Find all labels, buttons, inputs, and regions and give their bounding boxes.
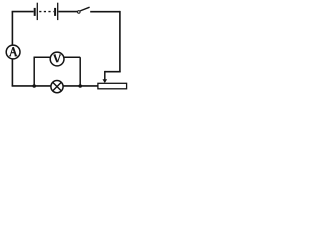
rheostat body xyxy=(98,83,127,89)
wire branch to voltmeter xyxy=(34,56,51,58)
wire right vertical xyxy=(119,11,121,72)
switch S pivot contact xyxy=(78,11,81,14)
ammeter A label xyxy=(9,47,18,56)
switch S lever (open) xyxy=(80,7,89,11)
voltmeter V body xyxy=(50,52,64,66)
wire branch left vertical xyxy=(33,57,35,86)
wire jog to slider xyxy=(105,71,121,73)
lamp cross stroke 2 xyxy=(53,82,62,91)
lamp cross stroke 1 xyxy=(53,82,62,91)
wire bottom-left corner to lamp xyxy=(12,85,51,87)
slider arrowhead xyxy=(103,79,108,83)
junction dot right xyxy=(78,84,82,88)
wire branch right vertical xyxy=(79,57,81,86)
battery cell 2 positive plate (long thin) xyxy=(57,3,59,20)
wire left vertical top (corner to ammeter) xyxy=(11,12,13,46)
wire left vertical bottom (ammeter to bottom-left corner) xyxy=(11,59,13,86)
battery cell 2 negative plate (short thick) xyxy=(54,8,56,16)
wire slider arrow shaft xyxy=(104,71,106,80)
wire battery to switch xyxy=(58,11,77,13)
wire switch to top-right corner xyxy=(90,11,120,13)
battery cell 1 positive plate (long thin) xyxy=(36,3,38,20)
voltmeter V label xyxy=(54,55,62,62)
junction dot left xyxy=(32,84,36,88)
wire top segment (corner to battery) xyxy=(12,11,34,13)
ammeter A body xyxy=(6,45,20,59)
lamp body xyxy=(51,81,63,93)
battery cell 1 negative plate (short thick) xyxy=(34,8,36,16)
wire lamp to rheostat xyxy=(63,85,98,87)
wire dashed (additional cells) xyxy=(39,11,53,13)
wire voltmeter to right branch xyxy=(64,56,80,58)
